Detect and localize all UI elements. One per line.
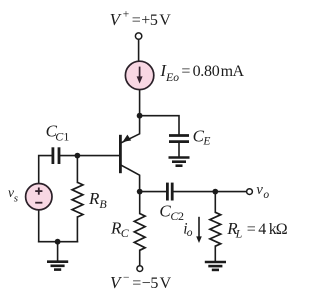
svg-text:=: = <box>181 63 190 80</box>
svg-text:−: − <box>123 272 129 284</box>
svg-text:L: L <box>235 227 243 241</box>
svg-text:o: o <box>263 189 269 201</box>
svg-text:−5: −5 <box>142 275 159 292</box>
svg-text:1: 1 <box>63 130 69 144</box>
svg-text:=: = <box>132 275 141 292</box>
svg-text:=: = <box>247 221 256 238</box>
svg-text:V: V <box>159 12 171 29</box>
svg-text:+: + <box>123 9 129 21</box>
svg-text:B: B <box>99 197 107 211</box>
svg-text:v: v <box>256 182 263 198</box>
svg-text:o: o <box>173 72 179 84</box>
svg-text:R: R <box>88 189 100 208</box>
svg-text:V: V <box>160 275 172 292</box>
svg-text:kΩ: kΩ <box>269 221 288 238</box>
svg-text:o: o <box>187 227 193 239</box>
svg-text:4: 4 <box>258 221 266 238</box>
svg-text:+5: +5 <box>141 12 158 29</box>
svg-text:s: s <box>14 193 18 205</box>
svg-text:E: E <box>202 136 210 148</box>
svg-text:mA: mA <box>221 63 245 80</box>
svg-text:0.80: 0.80 <box>193 63 220 80</box>
svg-text:C: C <box>121 226 130 240</box>
svg-text:=: = <box>132 12 141 29</box>
